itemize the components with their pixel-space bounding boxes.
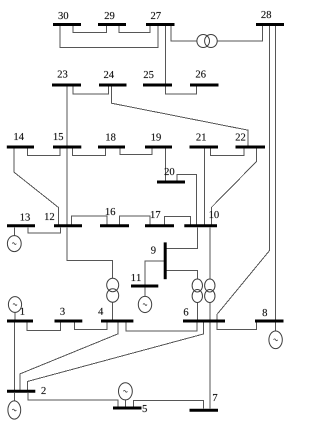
- label bus 30: [59, 12, 69, 19]
- transformer T3 (6-9): [192, 279, 202, 303]
- generator at bus 2: [8, 393, 21, 419]
- wire 24-22: [111, 87, 248, 146]
- wire 22-10: [211, 149, 256, 225]
- wire 25-26: [165, 87, 196, 95]
- wire transformer T4 to 6: [209, 303, 211, 320]
- bus 11 busbar: [131, 285, 158, 288]
- bus 20 busbar: [157, 181, 185, 184]
- wire 30-29: [73, 26, 106, 33]
- wire 15-18: [73, 149, 106, 156]
- bus 22 busbar: [236, 146, 266, 149]
- transformer T1 (27-28): [197, 35, 217, 48]
- label bus 27: [151, 12, 161, 19]
- wire 5-7: [134, 400, 204, 408]
- generator at bus 8: [269, 323, 282, 349]
- bus 12 busbar: [54, 224, 82, 227]
- bus 15 busbar: [53, 146, 81, 149]
- wire 23-24: [73, 87, 109, 94]
- label bus 22: [236, 133, 246, 140]
- bus 2 busbar: [7, 390, 35, 393]
- bus 14 busbar: [7, 146, 34, 149]
- bus 28 busbar: [256, 23, 284, 26]
- bus 6 busbar: [183, 320, 225, 323]
- generator at bus 1: [8, 297, 21, 320]
- wire 4-6: [126, 323, 197, 331]
- bus 16 busbar: [100, 224, 129, 227]
- bus 29 busbar: [98, 23, 126, 26]
- bus 24 busbar: [99, 84, 127, 87]
- bus 9 busbar (vertical): [164, 242, 167, 279]
- wire 28-8: [275, 26, 277, 320]
- label bus 25: [144, 71, 154, 78]
- wire 10 to transformer T4: [209, 227, 211, 279]
- transformer T4 (6-10): [205, 279, 215, 303]
- bus 23 busbar: [52, 84, 81, 87]
- wire 18-19: [120, 149, 152, 155]
- bus 4 busbar: [101, 320, 133, 323]
- label bus 3: [60, 308, 64, 315]
- wire 3-4: [74, 323, 107, 330]
- bus 7 busbar: [190, 409, 219, 412]
- generator at bus 11: [138, 288, 151, 313]
- wire 13-12: [28, 227, 61, 233]
- wire 15-12: [66, 149, 68, 225]
- label bus 14: [14, 133, 24, 140]
- transformer T2 (4-12): [107, 278, 119, 302]
- label bus 16: [106, 208, 115, 215]
- label bus 23: [58, 70, 68, 77]
- wire 14-15: [27, 149, 59, 156]
- wire 27-25: [164, 26, 166, 84]
- label bus 21: [196, 133, 205, 140]
- label bus 20: [165, 168, 175, 175]
- label bus 1: [21, 308, 25, 315]
- bus 10 busbar: [184, 224, 217, 227]
- wire 9-10: [166, 227, 197, 248]
- bus 17 busbar: [145, 224, 174, 227]
- wire 20-10: [177, 175, 197, 225]
- label bus 4: [98, 308, 103, 315]
- label bus 8: [263, 309, 267, 316]
- label bus 12: [45, 213, 54, 220]
- wire 27 to transformer T1: [171, 26, 197, 41]
- wire 6-8: [217, 323, 256, 330]
- wire 29-27: [119, 26, 150, 32]
- label bus 15: [54, 133, 63, 140]
- wire 16-17: [119, 216, 150, 224]
- wire 30-27: [60, 26, 158, 48]
- label bus 2: [41, 387, 45, 394]
- wire 23-15: [66, 87, 68, 146]
- wire 19-20: [164, 149, 166, 181]
- wire 14-12: [14, 149, 59, 225]
- wire 17-10: [164, 217, 190, 225]
- label bus 18: [106, 133, 115, 140]
- wire transformer T2 to 4: [112, 302, 114, 319]
- label bus 11: [132, 274, 141, 281]
- label bus 28: [261, 11, 271, 18]
- bus 5 busbar: [113, 407, 142, 410]
- bus 21 busbar: [190, 146, 219, 149]
- wire 21-10: [204, 149, 206, 225]
- bus 1 busbar: [7, 320, 33, 323]
- wire 2-6: [27, 323, 203, 390]
- bus 3 busbar: [55, 320, 83, 323]
- bus 13 busbar: [7, 224, 35, 227]
- bus 18 busbar: [98, 146, 125, 149]
- label bus 6: [184, 308, 189, 315]
- label bus 26: [196, 70, 206, 77]
- label bus 13: [21, 213, 30, 220]
- bus 19 busbar: [145, 146, 172, 149]
- wire 12 to transformer T2: [67, 227, 113, 278]
- wire 2-4: [20, 323, 118, 390]
- wire 9-11: [145, 261, 166, 285]
- bus 26 busbar: [190, 84, 219, 87]
- generator at bus 13: [7, 227, 21, 251]
- wire 9 to transformer T3: [166, 270, 197, 279]
- bus 27 busbar: [146, 23, 175, 26]
- label bus 10: [210, 211, 219, 218]
- wire 1-2: [14, 323, 16, 390]
- label bus 7: [213, 394, 217, 401]
- bus 8 busbar: [255, 320, 284, 323]
- generator at bus 5: [119, 383, 133, 407]
- bus 25 busbar: [143, 84, 172, 87]
- wire 28-6: [217, 26, 270, 320]
- wire 1-3: [27, 323, 60, 331]
- label bus 17: [151, 211, 160, 218]
- label bus 24: [104, 71, 114, 78]
- wire transformer T1 to 28: [217, 26, 262, 41]
- label bus 29: [105, 12, 115, 19]
- wire 6-7: [209, 323, 211, 409]
- wire transformer T3 to 6: [196, 303, 198, 320]
- label bus 19: [152, 133, 161, 140]
- wire 2-5: [28, 393, 118, 407]
- wire 12-16: [72, 216, 108, 224]
- label bus 5: [143, 405, 147, 412]
- bus 30 busbar: [53, 23, 81, 26]
- wire 21-22: [211, 149, 245, 156]
- label bus 9: [151, 246, 156, 253]
